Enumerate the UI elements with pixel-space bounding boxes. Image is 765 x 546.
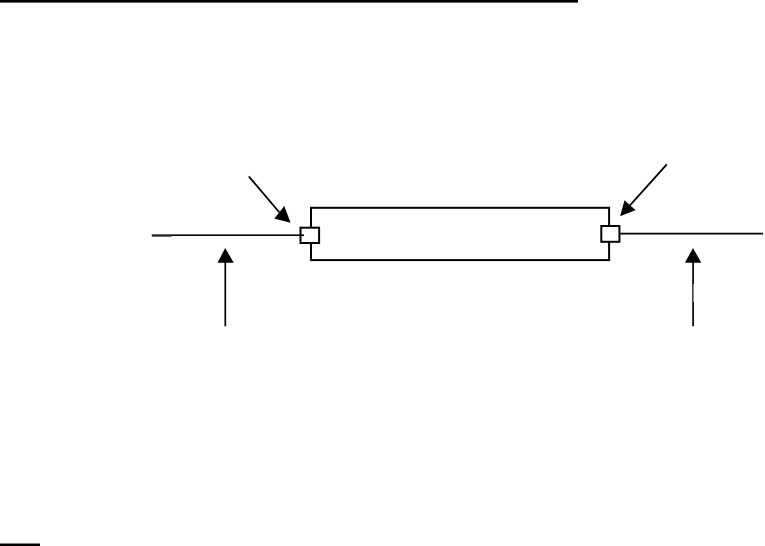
left lead wire tip inside cap [298,234,304,236]
right lead pointer arrow (shaft) [692,261,694,326]
component body (tube) [311,208,609,260]
right lead pointer arrow (shaft overlap, lighter mid segment) [692,284,694,302]
left end cap (terminal square) [301,228,320,243]
arrow to left end cap (shaft) [249,176,279,212]
footnote rule [0,544,40,546]
right lead pointer arrow (head) [685,248,701,263]
arrow to right end cap (shaft) [630,164,667,205]
arrow to right end cap (head) [620,200,636,216]
left lead pointer arrow (shaft) [224,261,226,326]
header rule [0,0,578,3]
left lead wire [152,234,298,236]
left lead pointer arrow (head) [218,248,234,263]
arrow to left end cap (head) [274,206,290,223]
right end cap (terminal square) [601,226,619,242]
right lead wire [620,233,763,235]
left lead wire overlap stub [152,235,172,237]
